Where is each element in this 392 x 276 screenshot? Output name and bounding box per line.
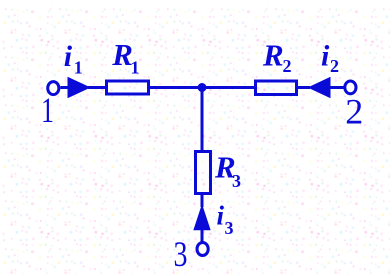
svg-text:3: 3 [232,171,241,191]
wire resistor R3 to arrow i3 [201,194,204,208]
wire arrow i3 to terminal 3 [201,229,204,244]
wire center node to resistor R3 [201,88,204,153]
wire arrow i2 to terminal 2 [329,86,344,89]
wire arrow i1 to resistor R1 [88,86,106,89]
svg-text:i: i [64,40,73,73]
current arrow i3 [194,206,210,230]
svg-text:i: i [217,201,225,231]
svg-text:i: i [321,40,330,73]
label R2 [262,37,292,76]
current arrow i1 [68,78,90,98]
wire resistor R1 to center node [150,86,203,89]
svg-text:2: 2 [330,56,339,76]
svg-text:2: 2 [345,92,363,132]
svg-text:3: 3 [225,218,234,238]
resistor R2 [256,81,297,95]
current arrow i2 [309,78,330,98]
terminal 1 (port circle) [48,82,59,95]
svg-text:1: 1 [131,58,140,78]
wire resistor R2 to arrow i2 [297,86,311,89]
label R1 [111,37,139,77]
wire center node to resistor R2 [202,86,255,89]
terminal 3 (port circle) [197,243,208,256]
resistor R3 [196,152,211,194]
wire terminal 1 to arrow i1 [60,86,69,89]
label i3 [217,201,234,238]
resistor R1 [107,81,149,94]
svg-text:1: 1 [74,58,83,78]
svg-text:1: 1 [41,90,54,130]
terminal 2 (port circle) [345,81,356,94]
svg-text:2: 2 [283,56,292,76]
node (center junction) [198,84,206,92]
label R3 [214,150,241,192]
svg-text:R: R [262,37,284,72]
label i1 [64,40,83,78]
label i2 [321,40,339,77]
svg-text:3: 3 [174,234,188,274]
